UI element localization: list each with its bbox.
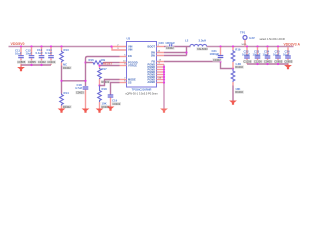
wire output caps ground bus [247, 63, 288, 65]
wire input bus [9, 46, 113, 48]
wire EN net [86, 57, 120, 87]
svg-text:C1206: C1206 [244, 60, 252, 64]
svg-text:C0805: C0805 [264, 60, 272, 64]
pin numbers left [117, 45, 126, 83]
svg-text:R0402: R0402 [63, 105, 71, 109]
inductor L2 [185, 39, 208, 52]
svg-text:AGND: AGND [147, 80, 155, 84]
svg-text:1000pF: 1000pF [210, 52, 220, 56]
wire MODE net [100, 80, 120, 86]
svg-text:VDD3V3 A: VDD3V3 A [284, 43, 301, 47]
svg-text:L2: L2 [185, 39, 189, 43]
svg-text:4.7uF: 4.7uF [75, 86, 83, 90]
pin BOOT stub [157, 46, 165, 48]
capacitor C11 [15, 47, 26, 65]
junction dots input bus [20, 45, 113, 47]
svg-text:1000pF: 1000pF [165, 41, 175, 45]
capacitor C24 [263, 47, 273, 64]
junction dot bridge [60, 80, 62, 82]
svg-text:10uF: 10uF [273, 52, 280, 56]
svg-text:VDD5V0: VDD5V0 [11, 42, 25, 46]
svg-text:R17: R17 [102, 67, 108, 71]
pin FB stub [157, 61, 165, 63]
junction dot EN/bridge [84, 80, 86, 82]
svg-text:10uF: 10uF [15, 52, 22, 56]
wire output bus [207, 46, 294, 48]
capacitor C13 [36, 47, 47, 65]
svg-text:TPS56C230RNR: TPS56C230RNR [132, 88, 152, 92]
pin VTRGE stub [120, 65, 127, 67]
ground output caps [284, 64, 292, 69]
capacitor C19 [108, 95, 121, 107]
junction dots output bus [219, 45, 279, 47]
capacitor C21 feedforward [210, 47, 224, 62]
svg-text:10uF: 10uF [26, 52, 33, 56]
ground R14 [58, 109, 66, 113]
svg-text:SW: SW [151, 54, 156, 58]
svg-text:U3: U3 [127, 37, 131, 41]
ground R20 [229, 101, 237, 105]
svg-text:0.1uF: 0.1uF [36, 51, 44, 55]
svg-text:C0402: C0402 [113, 102, 121, 106]
pin F3000 stub [120, 62, 127, 64]
svg-text:100uF: 100uF [253, 52, 261, 56]
resistor R16 [86, 58, 120, 64]
pin PGND stubs [157, 65, 165, 83]
pin SW stubs [157, 53, 165, 56]
resistor R19 [231, 47, 244, 69]
capacitor C18 [75, 83, 88, 109]
wire bridge to EN column [62, 80, 86, 82]
capacitor C22 [242, 47, 252, 64]
svg-text:C0805: C0805 [28, 60, 36, 64]
capacitor C25 [273, 47, 283, 64]
ground R18 [96, 109, 104, 113]
wire SS net [111, 83, 120, 95]
svg-text:C0402: C0402 [166, 46, 174, 50]
ground PGND [160, 109, 168, 113]
svg-text:R19: R19 [235, 48, 241, 52]
ground C18 [82, 109, 90, 113]
svg-text:3.3V: 3.3V [249, 36, 255, 40]
svg-text:10uF: 10uF [283, 52, 290, 56]
svg-text:R18: R18 [102, 87, 108, 91]
junction dot VTRGE/R17 [98, 64, 100, 66]
svg-text:select 1.5mOhm DCR: select 1.5mOhm DCR [260, 37, 285, 41]
junction dot R17/MODE [98, 84, 100, 86]
pin SS stub [120, 82, 127, 84]
ground C19 [107, 107, 115, 111]
wire FB net [164, 62, 233, 69]
junction dots output ground bus [256, 63, 279, 65]
junction dot FB divider [232, 67, 234, 69]
capacitor C20 boot [159, 41, 191, 50]
wire R13 down [61, 66, 63, 94]
junction dot FB cap [219, 60, 221, 62]
svg-text:BOOT: BOOT [148, 45, 156, 49]
svg-text:C0805: C0805 [275, 60, 283, 64]
svg-text:10uF: 10uF [263, 52, 270, 56]
svg-text:R14: R14 [64, 91, 70, 95]
svg-text:C20: C20 [159, 41, 165, 45]
svg-text:C19: C19 [112, 98, 118, 102]
wire input caps ground bus [21, 64, 51, 66]
svg-text:C0805: C0805 [285, 60, 293, 64]
pin numbers right [158, 45, 162, 80]
svg-text:C0402: C0402 [38, 60, 46, 64]
svg-text:C0402: C0402 [48, 60, 56, 64]
svg-text:R0402: R0402 [235, 90, 243, 94]
svg-text:TP1: TP1 [240, 31, 246, 35]
capacitor C14 [45, 47, 56, 65]
wire R20 to ground [232, 86, 234, 101]
pin EN stub [120, 56, 127, 58]
svg-text:C0805: C0805 [18, 60, 26, 64]
resistor R17 [98, 66, 110, 86]
ground input caps [17, 65, 25, 71]
svg-text:C0402: C0402 [213, 58, 221, 62]
wire VTRGE net [100, 65, 120, 67]
svg-text:C1206: C1206 [254, 60, 262, 64]
svg-text:VTRGE: VTRGE [128, 64, 137, 68]
svg-text:100uF: 100uF [242, 52, 250, 56]
test point TP1 [240, 31, 255, 47]
svg-text:R16: R16 [89, 58, 95, 62]
junction dot SW [185, 51, 187, 53]
resistor R13 [60, 47, 72, 70]
op IC U3 box [127, 37, 157, 87]
svg-text:R0402: R0402 [63, 66, 71, 70]
svg-text:XAL5030: XAL5030 [197, 47, 208, 51]
svg-text:xQFN-30-1 3.5x5.5 P0.5mm: xQFN-30-1 3.5x5.5 P0.5mm [125, 91, 157, 95]
svg-text:SS: SS [128, 81, 132, 85]
svg-text:R13: R13 [64, 48, 70, 52]
junction dot EN/R16 [84, 61, 86, 63]
junction dots ground bus [30, 64, 42, 66]
resistor R18 [98, 86, 110, 109]
svg-text:5015: 5015 [242, 44, 248, 46]
svg-text:R0402: R0402 [102, 80, 110, 84]
wire SW net [164, 47, 187, 56]
junction dots PGND [163, 66, 165, 84]
resistor R14 [60, 91, 72, 109]
capacitor C26 [283, 47, 293, 64]
svg-text:R0402: R0402 [235, 65, 243, 69]
svg-text:3.3uH: 3.3uH [199, 39, 207, 43]
resistor R20 [231, 69, 244, 95]
pin MODE stub [120, 79, 127, 81]
svg-text:C0603: C0603 [76, 91, 84, 95]
capacitor C12 [26, 47, 37, 65]
svg-text:EN: EN [128, 54, 132, 58]
svg-text:VIN: VIN [128, 48, 132, 52]
pin VIN stubs and branch [112, 47, 127, 51]
wire PGND bus [163, 65, 165, 109]
svg-text:0.1uF: 0.1uF [45, 51, 53, 55]
capacitor C23 [253, 47, 263, 64]
